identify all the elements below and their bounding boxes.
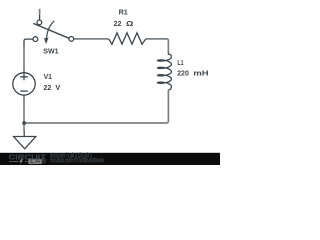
watermark bar	[0, 153, 220, 165]
wire resistor to inductor top	[146, 39, 169, 53]
resistor R1 zigzag	[109, 33, 146, 44]
wire V1 bottom to junction	[23, 99, 25, 124]
watermark logo LAB badge	[28, 159, 42, 164]
inductor L1 bottom lead	[168, 86, 171, 90]
wire left rail from switch to V1	[23, 47, 25, 70]
ground symbol	[14, 131, 36, 149]
wire top stub to SW1 throw terminal	[39, 9, 41, 14]
junction node dot	[22, 121, 26, 125]
svg-text:SW1: SW1	[43, 47, 58, 56]
switch SW1 actuation arrow shaft	[47, 21, 55, 38]
switch SW1 arrowhead	[44, 37, 49, 44]
switch SW1 left terminal circle	[33, 37, 38, 42]
voltage source V1 circle	[13, 73, 35, 95]
inductor L1 coil	[157, 57, 171, 87]
watermark logo underline and bolt	[9, 161, 28, 163]
svg-text:L1: L1	[177, 58, 183, 67]
switch SW1 top stub lead	[39, 14, 41, 20]
switch SW1 left lead and corner	[24, 39, 33, 46]
switch SW1 top terminal circle	[37, 20, 42, 25]
voltage source V1 bottom lead	[23, 95, 25, 98]
switch SW1 right terminal circle	[69, 37, 74, 42]
wire switch to resistor	[74, 38, 109, 40]
wire bottom rail to inductor branch	[24, 90, 168, 123]
svg-text:LAB: LAB	[30, 156, 47, 165]
svg-text:circuitlab.com/c/757d3f9nab43w: circuitlab.com/c/757d3f9nab43ww4u	[50, 156, 104, 165]
switch SW1 blade	[33, 23, 69, 38]
voltage source V1 minus sign	[20, 90, 27, 92]
voltage source V1 plus sign	[20, 73, 27, 80]
svg-text:220mH: 220mH	[177, 68, 208, 77]
inductor L1 top lead	[168, 53, 171, 57]
wire ground stem	[23, 123, 25, 131]
svg-text:V1: V1	[44, 72, 52, 81]
voltage source V1 top lead	[23, 70, 25, 73]
svg-text:R1: R1	[119, 8, 128, 17]
